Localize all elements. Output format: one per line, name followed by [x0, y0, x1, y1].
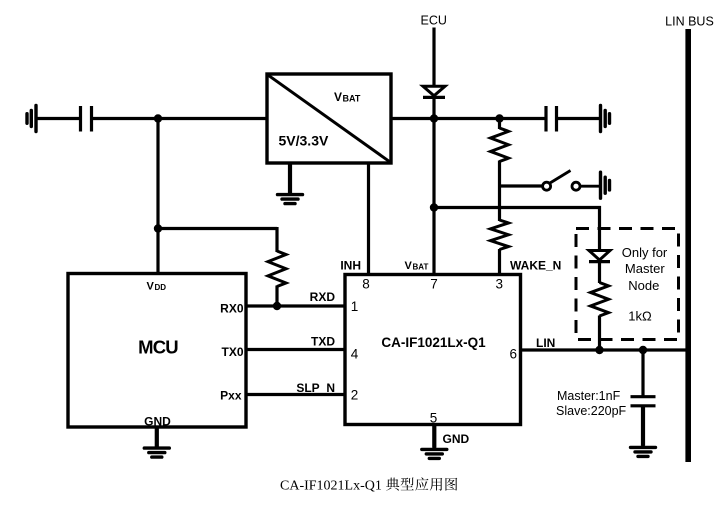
svg-text:BAT: BAT: [413, 263, 429, 272]
svg-text:WAKE_N: WAKE_N: [510, 259, 561, 273]
svg-text:Only for: Only for: [622, 245, 668, 260]
wire master-branch vertical down: [598, 206, 601, 252]
pin number 1: [351, 299, 359, 314]
wire transceiver ground stem: [433, 425, 436, 449]
svg-text:Master: Master: [625, 261, 665, 276]
wire R1 to switch tap: [498, 161, 501, 222]
transceiver U1 CA-IF1021Lx-Q1 box: [345, 275, 521, 425]
svg-text:5V/3.3V: 5V/3.3V: [279, 133, 329, 149]
label Master: [625, 261, 665, 276]
dashed box: Only for Master Node: [576, 229, 679, 340]
wire MCU ground stem: [155, 427, 158, 447]
svg-text:MCU: MCU: [138, 337, 178, 358]
node wake-wire junction on VBAT line: [430, 203, 438, 211]
svg-text:LIN BUS: LIN BUS: [665, 15, 714, 29]
label TXD: [311, 335, 335, 349]
label 5V/3.3V (regulator output): [279, 133, 329, 149]
resistor R3 1k (master pull-up): [591, 283, 609, 317]
svg-text:BAT: BAT: [343, 94, 361, 104]
wire C2 to ground: [557, 117, 601, 120]
svg-text:1: 1: [351, 299, 359, 314]
label Slave:220pF: [556, 404, 627, 418]
label MCU: [138, 337, 178, 358]
wire D1 to rail: [432, 97, 435, 119]
resistor R4 (RXD pull-up): [268, 251, 286, 287]
label GND (MCU pin): [144, 415, 171, 429]
wire left ground to C1: [36, 117, 79, 120]
resistor R1 (WAKE_N pull-up): [491, 128, 509, 162]
wire VDD tap horizontal: [158, 227, 277, 230]
svg-text:Slave:220pF: Slave:220pF: [556, 404, 627, 418]
wire RXD: [246, 304, 345, 307]
svg-text:V: V: [334, 90, 342, 104]
ground (switch): [601, 172, 610, 198]
svg-text:CA-IF1021Lx-Q1: CA-IF1021Lx-Q1: [381, 335, 486, 350]
pin number 3: [496, 277, 504, 292]
node RXD junction: [273, 302, 281, 310]
node VDD / RXD pull-up junction: [154, 224, 162, 232]
label INH: [340, 259, 361, 273]
wire VBAT pin feed vertical: [432, 119, 435, 275]
svg-text:4: 4: [351, 347, 359, 362]
label TX0: [221, 345, 243, 359]
wire tap vertical to R4: [275, 227, 278, 252]
wire R2 to WAKE_N pin 3: [498, 249, 501, 275]
capacitor C1 (battery input filter): [81, 106, 92, 132]
label Only for: [622, 245, 668, 260]
node ECU/rail junction: [430, 114, 438, 122]
svg-text:Node: Node: [628, 278, 659, 293]
pin number 5: [430, 411, 438, 426]
wire VDD supply vertical: [156, 119, 159, 274]
ground (MCU): [144, 427, 169, 457]
node LIN / master branch junction: [595, 346, 603, 354]
label VBAT (pin 7): [405, 260, 429, 272]
svg-text:GND: GND: [144, 415, 171, 429]
label Node: [628, 278, 659, 293]
label LIN BUS: [665, 15, 714, 29]
svg-text:2: 2: [351, 388, 359, 403]
wire C1 to regulator VBAT input: [93, 117, 268, 120]
label RXD: [310, 290, 336, 304]
ground (transceiver): [422, 425, 447, 459]
wire C3 top: [641, 350, 644, 396]
ground (chassis, left of C1): [27, 106, 36, 132]
wire regulator output to ECU node: [391, 117, 434, 120]
label RX0: [220, 302, 244, 316]
label ECU: [420, 14, 446, 28]
svg-text:GND: GND: [443, 432, 470, 446]
svg-text:RX0: RX0: [220, 302, 244, 316]
svg-text:V: V: [405, 260, 413, 272]
svg-text:DD: DD: [155, 283, 167, 292]
capacitor C2 (rail decoupling): [546, 106, 557, 132]
svg-text:6: 6: [510, 347, 518, 362]
svg-text:TXD: TXD: [311, 335, 335, 349]
label 1kΩ: [628, 309, 652, 324]
pin number 8: [362, 277, 370, 292]
svg-text:1kΩ: 1kΩ: [628, 309, 652, 324]
label GND (pin 5): [443, 432, 470, 446]
wire R1 top stub: [498, 119, 501, 130]
label LIN: [536, 336, 555, 350]
svg-text:8: 8: [362, 277, 370, 292]
resistor R2 (WAKE_N series): [491, 220, 509, 249]
wire R4 to RXD junction: [275, 286, 278, 307]
svg-text:Master:1nF: Master:1nF: [557, 389, 621, 403]
ground (right of C2): [601, 106, 610, 132]
wire SLP_N: [246, 393, 345, 396]
svg-text:7: 7: [430, 277, 438, 292]
svg-text:INH: INH: [340, 259, 361, 273]
node VBAT-rail / VDD tap junction: [154, 114, 162, 122]
capacitor C3 (LIN slave/master cap): [631, 397, 656, 406]
pin number 2: [351, 388, 359, 403]
svg-text:5: 5: [430, 411, 438, 426]
wire LIN BUS line: [685, 29, 691, 462]
wire rail to C2: [500, 117, 547, 120]
svg-text:Pxx: Pxx: [220, 389, 242, 403]
svg-text:LIN: LIN: [536, 336, 555, 350]
svg-text:3: 3: [496, 277, 504, 292]
label WAKE_N: [510, 259, 561, 273]
pin number 4: [351, 347, 359, 362]
svg-text:TX0: TX0: [221, 345, 243, 359]
MCU block: [68, 274, 246, 428]
wire D2 to R3: [598, 262, 601, 283]
diode D1 (reverse battery, ECU feed): [423, 86, 445, 97]
caption CA-IF1021Lx-Q1 典型应用图: [280, 477, 457, 493]
wire TXD: [246, 348, 345, 351]
svg-text:CA-IF1021Lx-Q1: CA-IF1021Lx-Q1: [280, 479, 385, 494]
node LIN / C3 junction: [639, 346, 647, 354]
label Master:1nF: [557, 389, 621, 403]
wire R3 to LIN wire: [598, 316, 601, 351]
label Pxx: [220, 389, 242, 403]
svg-text:RXD: RXD: [310, 290, 336, 304]
regulator diagonal: [268, 75, 390, 162]
label CA-IF1021Lx-Q1: [381, 335, 486, 350]
ground (C3): [631, 407, 656, 456]
wire wake feed horizontal (VBAT node to master diode): [434, 206, 601, 209]
wire C3 bottom: [641, 407, 644, 446]
label VDD (MCU pin): [147, 281, 167, 293]
pin number 6: [510, 347, 518, 362]
svg-text:V: V: [147, 281, 155, 293]
label VBAT (regulator input): [334, 90, 361, 104]
svg-text:ECU: ECU: [420, 14, 446, 28]
switch SW1 (wake switch): [543, 171, 599, 191]
wire ECU to diode D1: [432, 28, 435, 88]
pin number 7: [430, 277, 438, 292]
wire rail ECU-node to WAKE divider: [434, 117, 500, 120]
node rail / WAKE pull-up junction: [495, 114, 503, 122]
wire LIN pin 6 to LIN bus: [521, 348, 689, 351]
wire INH pin 8 vertical: [367, 163, 370, 275]
wire regulator ground stem: [288, 163, 291, 193]
diode D2 (master node): [589, 251, 610, 262]
wire switch tap horizontal: [500, 184, 544, 187]
label SLP_N: [296, 381, 335, 395]
voltage regulator U2 box (VBAT to 5V/3.3V): [267, 74, 391, 163]
ground (regulator): [278, 163, 303, 204]
